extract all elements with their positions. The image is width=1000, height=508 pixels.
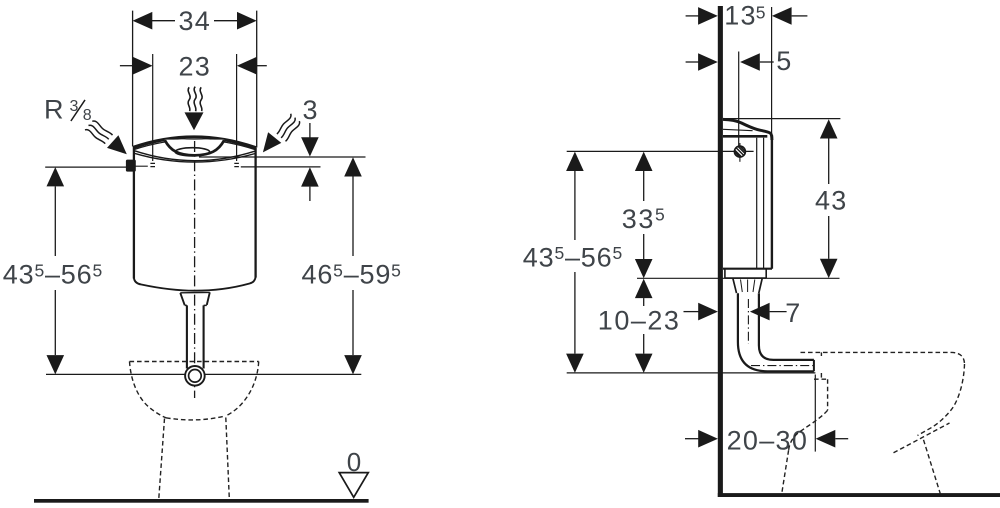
svg-text:R: R [44,95,64,125]
dimension 5 extension line [738,52,740,147]
flush bend centerline [748,299,813,366]
dimension 3 lower leader [309,187,311,201]
svg-text:435–565: 435–565 [523,242,623,272]
centerline cistern [194,141,196,398]
cistern top reference line right view [723,118,840,120]
dimension 23 tail right [256,65,267,67]
cistern bottom arc [134,277,256,291]
dimension 46.5-59.5 right chain [344,157,362,176]
squiggle arrow right lid [277,114,300,142]
ground line left [34,499,369,503]
outlet fitting right view [733,278,762,293]
dimension 23 extension line right [236,54,238,161]
lid seam reference line right [241,166,321,168]
dimension 34 arrow right [237,12,257,30]
wall [718,6,723,497]
flush bend end cap [813,360,815,371]
svg-text:23: 23 [179,51,211,81]
datum triangle [339,473,368,498]
ground line right [718,493,1000,497]
cistern front face [771,135,773,269]
seat level reference line [567,372,816,374]
dimension 43 [820,119,838,138]
dimension 23 tick marks left [150,163,155,166]
supply nipple R3/8 [126,160,136,172]
lid under line [723,129,753,130]
lower reference line [46,373,361,375]
dimension 5 tail right [760,61,774,63]
cistern lid bottom wave 2 [134,153,256,162]
cistern right wall [254,148,256,278]
dimension 34 line left [152,20,175,22]
chain top reference line [567,150,754,152]
cistern bottom flange [723,268,772,270]
flush pipe [187,305,204,368]
svg-text:8: 8 [83,107,92,124]
dimension 23 tick marks right [234,163,239,166]
flush button bowl [165,140,224,156]
dimension 23 extension line left [152,54,154,161]
supply connection circle [734,146,745,157]
svg-text:13: 13 [724,1,756,31]
svg-text:7: 7 [785,298,800,328]
svg-text:5: 5 [756,3,766,23]
dimension 13.5 tail left [686,15,700,17]
flush button inner ellipse [175,148,209,156]
dimension 23 tail left [120,65,134,67]
svg-text:43: 43 [815,186,847,216]
steam squiggle center [188,87,202,112]
dimension 20-30 [685,438,699,440]
cistern lid bottom wave 1 [134,151,256,161]
flush pipe outlet ring [185,366,205,386]
dimension 10-23 chain [635,279,653,298]
lid top reference line [199,156,366,158]
dimension 33.5 chain [635,152,653,171]
cistern lid top arc [133,137,256,148]
svg-text:20–30: 20–30 [727,425,809,455]
dimension 13.5 tail right [792,15,808,17]
svg-text:5: 5 [776,46,791,76]
dimension 5 arrow left-pointing [740,53,760,71]
dimension 5 arrow right-pointing [698,53,718,71]
dimension 7 [684,311,700,313]
dimension 23 arrow right [237,57,257,75]
lid seam inner segment [135,165,148,167]
inner vertical lines [757,138,764,268]
dimension 34 extension line right [256,11,258,148]
flush bend outer [738,293,814,371]
dimension 23 arrow left [133,57,153,75]
toilet bowl dashed left view [130,361,259,363]
dimension 34 line right [214,20,238,22]
svg-text:3: 3 [303,95,318,125]
cistern lid profile [723,119,772,140]
body top line [723,135,767,138]
dimension 34 extension line left [132,11,134,147]
dimension 13.5 arrow left-pointing [772,7,792,25]
svg-text:465–595: 465–595 [302,260,402,290]
steam arrow center [185,112,204,130]
supply connection centerlines [739,143,741,162]
cistern bottom reference line [637,277,840,279]
outlet fitting [180,292,210,305]
dimension 43.5-56.5 right view chain [566,152,584,171]
squiggle arrow R3/8 [85,121,113,144]
cistern lid second arc [134,140,257,150]
dimension 13.5 extension line [771,7,773,135]
svg-text:435–565: 435–565 [3,260,103,290]
flush bend inner [759,293,814,360]
dimension 3 arrow down [301,137,319,156]
dimension 34 arrow left [133,12,153,30]
toilet bowl dashed right view [801,352,965,364]
dimension 13.5 arrow right-pointing [698,7,718,25]
lid seam reference line left [45,166,126,168]
svg-text:10–23: 10–23 [598,305,681,335]
dimension 5 tail left [686,61,700,63]
svg-text:34: 34 [179,6,211,36]
cistern left wall [133,147,135,279]
dimension 3 upper leader [309,123,311,138]
dimension 43.5-56.5 left chain [47,167,65,186]
dimension 3 arrow up [301,167,319,186]
